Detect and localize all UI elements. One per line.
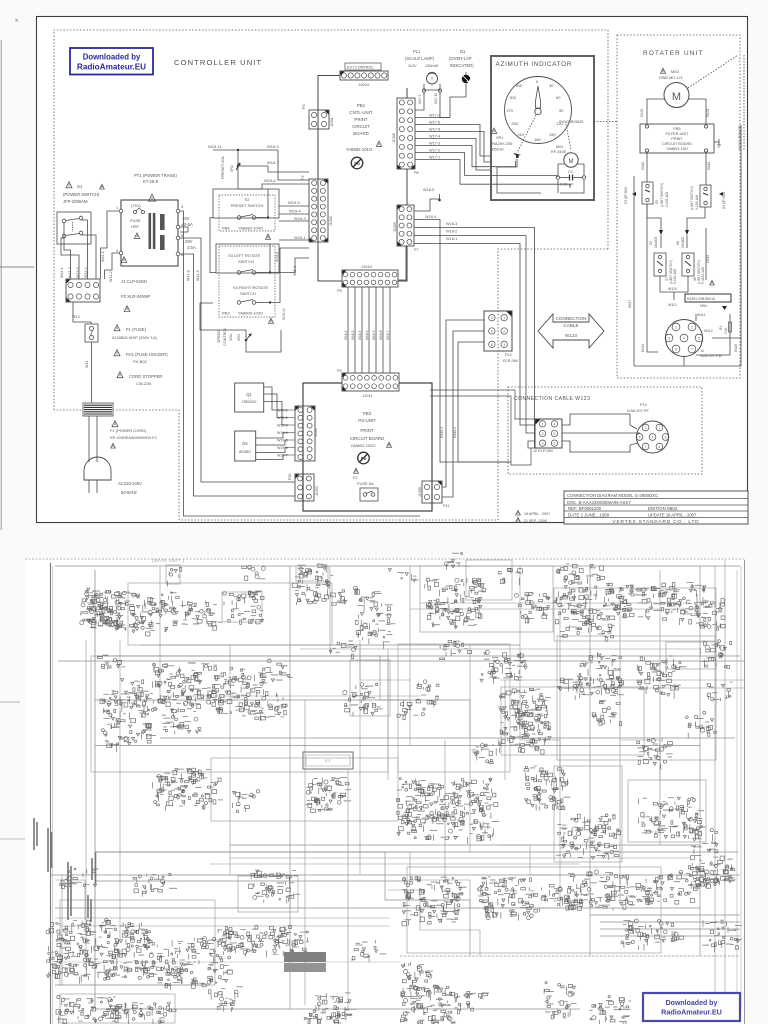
svg-text:J1009: J1009 [418,487,422,497]
svg-text:Downloaded by: Downloaded by [83,53,141,62]
connector J1002 [301,175,333,242]
svg-text:W14-8: W14-8 [187,270,191,281]
svg-text:(POWER SWITCH): (POWER SWITCH) [63,192,100,197]
svg-text:F1 (FUSE): F1 (FUSE) [126,327,147,332]
component cluster [700,640,731,669]
title block [564,491,748,525]
component cluster [524,766,570,811]
svg-text:D3 QP-30W: D3 QP-30W [624,187,628,204]
component cluster [149,937,232,991]
component cluster [152,768,223,811]
svg-text:D5: D5 [655,200,659,204]
svg-text:W16-4: W16-4 [365,330,369,340]
wire cable W123 [430,390,640,465]
svg-text:(LIMIT SWITCH): (LIMIT SWITCH) [660,183,664,207]
svg-text:CIRCUIT BOARD: CIRCUIT BOARD [662,142,692,146]
connector P12 [484,311,519,363]
component cluster [556,814,621,860]
component cluster [351,940,386,962]
svg-text:6: 6 [659,445,661,449]
component cluster [707,682,733,701]
svg-text:5: 5 [491,330,493,334]
svg-text:3: 3 [668,336,670,340]
fuse F1 [85,324,98,342]
svg-text:2: 2 [542,432,544,436]
component cluster [218,930,251,951]
svg-text:RA25Y-205: RA25Y-205 [492,141,513,146]
svg-text:W17-2: W17-2 [429,149,440,153]
svg-text:D2: D2 [242,441,248,446]
svg-text:1: 1 [503,316,505,320]
component cluster [556,564,604,584]
svg-text:HSF: HSF [131,224,140,229]
svg-text:W17-6: W17-6 [429,121,440,125]
svg-text:PL1: PL1 [413,49,421,54]
svg-text:W15-9: W15-9 [267,144,280,149]
bus lines [50,603,745,1009]
label J1 CLP-04NN [121,257,127,263]
svg-text:D4 QP-30W: D4 QP-30W [722,192,726,209]
svg-text:W15-11: W15-11 [208,144,222,149]
component cluster [519,700,551,745]
component cluster [568,870,636,911]
svg-text:W15-5: W15-5 [288,200,301,205]
svg-text:W17-1: W17-1 [429,156,440,160]
azimuth indicator box [491,56,594,200]
wire ext control [318,76,340,99]
connector J1011 [337,369,399,398]
wire W17 bundle [415,97,570,188]
transistor Q1 [235,383,288,425]
svg-text:W16-2: W16-2 [351,330,355,340]
wire rotate switches [210,218,309,321]
svg-text:SWITCH: SWITCH [238,259,254,264]
svg-text:YA8602-102O: YA8602-102O [350,443,375,448]
svg-text:4: 4 [652,435,654,439]
component cluster [402,877,467,926]
svg-text:W18-2: W18-2 [446,230,457,234]
svg-text:W19-7: W19-7 [277,454,288,458]
component cluster [254,692,287,721]
svg-text:AZIMUTH INDICATOR: AZIMUTH INDICATOR [496,61,573,68]
svg-text:240: 240 [511,121,518,126]
component cluster [60,868,99,888]
svg-text:KP-4190EAWXB0WH2-F1: KP-4190EAWXB0WH2-F1 [110,435,158,440]
svg-text:4: 4 [491,316,493,320]
svg-text:(OVER-LAP: (OVER-LAP [449,56,472,61]
resistor R1 [719,314,732,344]
svg-text:IC1: IC1 [325,759,330,763]
wire W19 labels [277,409,295,458]
svg-text:W123: W123 [565,333,577,338]
svg-text:YA8804-18O: YA8804-18O [666,147,688,151]
svg-text:30: 30 [549,83,554,88]
limit switch D4 [690,185,726,210]
svg-text:EDITION 0B02: EDITION 0B02 [648,506,678,511]
bus lines vertical [62,560,725,1010]
component cluster [223,591,264,624]
svg-text:M01: M01 [556,145,563,149]
svg-text:W18-5: W18-5 [423,188,434,192]
pot VR3 speed control [200,303,281,352]
svg-text:YA8682-104O: YA8682-104O [238,226,263,231]
label PB2 PS-UNIT [350,411,392,448]
component cluster [118,591,179,636]
svg-text:W122: W122 [640,108,644,117]
svg-text:PB1: PB1 [357,103,366,108]
component cluster [396,778,499,845]
sub-circuit boxes [60,560,716,1023]
component cluster [540,884,580,912]
component cluster [262,659,292,682]
synchronize dashes [688,55,744,150]
svg-text:W121: W121 [706,108,710,117]
svg-text:3.5A: 3.5A [187,245,196,250]
svg-text:P2 XLR-04NNP: P2 XLR-04NNP [121,294,151,299]
connector J1010 [337,264,398,293]
wire W16 bundle [344,287,390,373]
component cluster [400,985,456,1024]
switch S1 label [63,182,104,204]
component cluster [343,683,383,716]
svg-text:W13-2: W13-2 [68,267,72,278]
svg-text:W15-1: W15-1 [294,235,307,240]
connector J1008 [392,98,419,175]
component cluster [270,931,309,958]
limit switch S7 [654,253,677,284]
svg-text:2SE5200: 2SE5200 [242,400,257,404]
component cluster [688,856,735,887]
component cluster [168,567,182,586]
svg-text:W17-10: W17-10 [434,93,438,104]
component cluster [306,778,352,813]
azimuth needle [535,86,541,115]
svg-text:W15-6: W15-6 [264,178,277,183]
svg-text:300: 300 [509,95,516,100]
component cluster [121,679,144,702]
svg-text:SWITCH: SWITCH [240,291,256,296]
component cluster [471,743,501,764]
svg-text:P11: P11 [443,504,449,508]
motor M01 [551,145,584,176]
svg-text:(LIMIT SWITCH): (LIMIT SWITCH) [690,186,694,210]
ic block U center [303,752,353,769]
svg-text:YA8682-101O: YA8682-101O [346,147,373,152]
component cluster [639,797,705,839]
svg-text:PRINT: PRINT [671,137,683,141]
svg-text:W15-2: W15-2 [293,266,297,276]
capacitor C1 [556,169,585,187]
component cluster [558,678,583,698]
component cluster [612,585,661,620]
diode D5 [649,224,663,248]
svg-text:90: 90 [559,108,564,113]
svg-text:J1001: J1001 [330,117,334,127]
component cluster [355,613,395,649]
svg-text:RF-510E: RF-510E [551,150,567,154]
diode bridge D2 [235,431,288,461]
fuse F2 [353,468,378,501]
svg-text:B501K: B501K [492,147,504,152]
svg-text:7: 7 [691,347,693,351]
component cluster [359,592,393,613]
diode D6 [676,224,689,248]
downloaded badge bottom [643,993,740,1021]
svg-text:180: 180 [534,137,541,142]
limit switch D3 [624,182,669,207]
svg-text:INDICATER): INDICATER) [450,63,474,68]
svg-text:W19-1: W19-1 [277,409,288,413]
svg-text:W110-2: W110-2 [453,427,457,438]
svg-text:VR1: VR1 [496,136,503,140]
svg-text:S1: S1 [77,184,83,189]
svg-text:D6: D6 [676,241,680,245]
board PB1 outline [318,88,407,281]
svg-text:V-152-1A8: V-152-1A8 [673,269,677,284]
wire transformer secondary [180,211,420,516]
svg-text:YA8600-103O: YA8600-103O [238,311,263,316]
svg-text:P-1152-1A8: P-1152-1A8 [701,267,705,284]
component cluster [397,700,425,720]
svg-text:C1: C1 [568,169,574,174]
svg-text:CONTROLLER UNIT: CONTROLLER UNIT [174,58,262,67]
svg-text:VR3: VR3 [237,334,241,341]
label FH1 fuse holder [114,350,168,364]
connector J2 [533,419,562,453]
svg-text:W12: W12 [72,315,80,319]
svg-text:28V: 28V [185,239,193,244]
svg-text:JFP-2096AM: JFP-2096AM [63,199,88,204]
component cluster [573,652,624,700]
connector J1004 [340,71,388,87]
rotater unit boundary [617,35,740,378]
svg-text:FUSE: FUSE [130,218,141,223]
svg-text:CABLE: CABLE [563,323,578,328]
component cluster [686,711,717,738]
pb-free mark PB1 [351,157,363,169]
svg-text:J1004: J1004 [358,82,370,87]
label power cord [110,421,158,448]
svg-text:W17-5: W17-5 [429,128,440,132]
svg-text:S4 RIGHT ROTATE: S4 RIGHT ROTATE [233,285,268,290]
pb-free mark PB2 [358,452,370,464]
svg-text:6: 6 [553,442,555,446]
component cluster [514,593,550,623]
component cluster [151,662,220,712]
cord stopper [83,403,113,416]
ground PB5 [714,139,721,147]
svg-text:W117: W117 [628,300,632,308]
label EXT.CONTROL [345,63,381,70]
svg-text:(SCALE LAMP): (SCALE LAMP) [405,56,435,61]
motor M rotator [664,83,689,108]
svg-text:AC220-240V: AC220-240V [118,481,142,486]
svg-text:DSC. B-AAA23X000/MAIN-ASSY: DSC. B-AAA23X000/MAIN-ASSY [567,500,631,505]
svg-text:Downloaded by: Downloaded by [666,1000,718,1007]
wire W110 W116 [641,152,711,185]
svg-text:W13-3: W13-3 [76,267,80,278]
svg-text:PRESET.VOL: PRESET.VOL [221,156,225,179]
svg-text:W13-4: W13-4 [84,267,88,278]
component cluster [232,790,259,813]
svg-text:CIRCUIT: CIRCUIT [352,124,370,129]
svg-text:W114: W114 [641,344,645,352]
pot VR1 [491,128,521,158]
svg-text:SYNCHRONIZE: SYNCHRONIZE [738,125,742,150]
svg-text:SYNCHRONIZE: SYNCHRONIZE [559,120,584,124]
component cluster [213,925,302,957]
component cluster [440,640,472,659]
svg-text:W19-5: W19-5 [277,439,288,443]
dashed needle links [517,115,571,153]
lamp PL1 [405,49,450,118]
pot VR2 preset vol [221,156,309,179]
svg-text:DATE 1 JUNE...1999: DATE 1 JUNE...1999 [568,513,610,518]
wire W11 [91,342,93,404]
connector J3 [665,320,722,359]
wire azimuth internal [497,159,584,193]
component cluster [292,564,336,605]
main page border [25,559,745,1024]
svg-text:W11: W11 [85,361,89,368]
svg-text:W115: W115 [706,255,710,263]
component cluster [554,580,615,641]
svg-text:P7: P7 [414,248,419,252]
svg-text:PS-UNIT: PS-UNIT [358,418,376,423]
wire W12 [73,302,91,324]
svg-text:R1: R1 [719,326,723,330]
svg-text:W16-7: W16-7 [386,330,390,340]
svg-text:W110: W110 [641,162,645,170]
svg-text:VERTEX STANDARD CO.. LTD: VERTEX STANDARD CO.. LTD [613,519,700,525]
svg-text:CONNECTION CABLE W123: CONNECTION CABLE W123 [514,396,590,402]
component cluster [56,996,123,1024]
svg-text:KT-28-E: KT-28-E [143,179,159,184]
component cluster [425,578,486,629]
connection cable W123 boundary [508,387,702,474]
svg-text:EXT.CONTROL: EXT.CONTROL [347,66,374,70]
svg-text:150: 150 [549,132,556,137]
svg-text:CONNECTION: CONNECTION [556,316,587,321]
svg-text:W16-3: W16-3 [358,330,362,340]
svg-text:(T51): (T51) [131,203,141,208]
svg-text:60: 60 [556,95,561,100]
connector P11 J1009 [418,481,449,508]
component cluster [592,700,621,725]
label PB1 CNTL-UNIT [346,103,382,152]
svg-text:RadioAmateur.EU: RadioAmateur.EU [661,1008,722,1017]
svg-text:W16-6: W16-6 [379,330,383,340]
svg-text:5: 5 [639,435,641,439]
label F1 fuse [112,325,158,340]
wire transformer primary [101,211,120,282]
svg-text:RadioAmateur.EU: RadioAmateur.EU [77,63,146,72]
svg-text:2.2K: 2.2K [724,327,728,334]
svg-text:W13-1: W13-1 [60,267,64,278]
svg-text:P12: P12 [505,353,512,357]
svg-text:J1007: J1007 [314,427,318,437]
svg-text:18 APRIL...2007: 18 APRIL...2007 [524,512,550,516]
svg-text:3: 3 [542,442,544,446]
svg-text:W111: W111 [697,313,705,317]
rotate switch box [216,244,279,323]
svg-text:P9: P9 [337,369,342,373]
board PB5 filter unit [640,124,714,153]
svg-text:0216B01.MXP (250V 1A): 0216B01.MXP (250V 1A) [112,335,158,340]
svg-text:P3: P3 [302,104,306,109]
staircase routes [55,645,700,956]
svg-text:RA25Y-20B-B501K: RA25Y-20B-B501K [687,297,716,301]
svg-text:CONNECTION DIAGRAM MODEL G-2: CONNECTION DIAGRAM MODEL G-2800DXC [567,493,658,498]
svg-text:D1: D1 [460,49,466,54]
wire P12 feeds [398,246,484,497]
connector J1 CLP-04NN [66,279,100,302]
component cluster [416,680,439,707]
svg-text:VOL: VOL [229,333,233,341]
component cluster [636,870,701,905]
svg-text:J1008: J1008 [392,133,396,143]
svg-text:W15-10: W15-10 [282,308,286,320]
svg-text:0-5A: 0-5A [184,222,193,227]
wire W18 bundle [414,188,535,462]
svg-text:1N4005: 1N4005 [654,237,658,248]
connection cable arrow [538,314,604,348]
svg-text:VR2: VR2 [230,165,234,172]
led D1 over-lap [449,49,474,97]
component cluster [248,870,300,903]
svg-text:F1 (POWER CORD): F1 (POWER CORD) [110,428,147,433]
component cluster [162,712,202,735]
svg-text:BRUBD: BRUBD [239,450,251,454]
svg-text:MO2: MO2 [671,70,679,74]
wire W15-11 [208,144,309,189]
wire motor to PB5 [640,99,710,124]
svg-text:4: 4 [553,422,555,426]
component cluster [544,982,576,1019]
svg-text:W14-1: W14-1 [101,251,105,262]
svg-text:W18-3: W18-3 [446,222,457,226]
component cluster [688,825,718,854]
svg-text:W19-4: W19-4 [277,431,288,435]
svg-text:W112: W112 [704,329,713,333]
component cluster [589,996,631,1024]
svg-text:J1010: J1010 [361,264,373,269]
svg-text:PRINT: PRINT [354,117,367,122]
svg-text:3: 3 [665,435,667,439]
svg-text:Q1: Q1 [246,392,252,397]
wire limit to switches [628,176,710,366]
component cluster [498,688,551,754]
svg-text:5: 5 [553,432,555,436]
svg-text:W15-9: W15-9 [275,252,279,262]
svg-text:330: 330 [515,83,522,88]
svg-text:W17-4: W17-4 [429,135,440,139]
svg-text:0.01: 0.01 [560,182,569,187]
svg-text:CIRCUIT BOARD: CIRCUIT BOARD [350,436,385,441]
component cluster [691,860,735,889]
board PB2 outline [303,383,432,511]
svg-text:W18-4: W18-4 [425,215,436,219]
svg-text:3: 3 [503,343,505,347]
svg-text:PB4: PB4 [222,226,230,231]
svg-text:270: 270 [506,108,513,113]
component cluster [330,640,357,658]
edge tick bars [34,818,96,922]
wire rotator bottom [634,125,741,366]
svg-text:J1011: J1011 [362,393,373,398]
svg-text:2: 2 [645,426,647,430]
svg-text:130mW: 130mW [425,64,438,68]
